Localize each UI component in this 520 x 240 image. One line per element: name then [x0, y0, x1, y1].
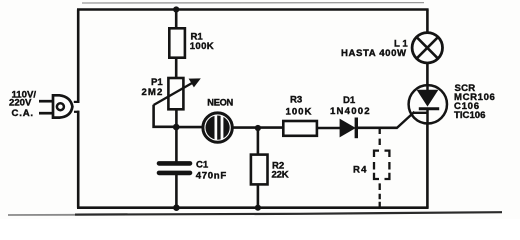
svg-text:HASTA 400W: HASTA 400W: [341, 48, 407, 59]
svg-text:2M2: 2M2: [142, 87, 164, 98]
svg-text:22K: 22K: [272, 170, 289, 181]
svg-text:TIC106: TIC106: [454, 110, 485, 121]
svg-text:1N4002: 1N4002: [330, 106, 371, 117]
svg-text:R4: R4: [353, 164, 368, 175]
svg-text:NEON: NEON: [207, 97, 233, 107]
svg-text:100K: 100K: [190, 41, 214, 52]
svg-text:D1: D1: [343, 95, 356, 106]
svg-text:470nF: 470nF: [196, 170, 227, 181]
svg-text:R3: R3: [290, 94, 302, 105]
svg-text:C1: C1: [196, 159, 209, 170]
svg-text:100K: 100K: [286, 107, 313, 118]
svg-text:C.A.: C.A.: [12, 108, 34, 119]
